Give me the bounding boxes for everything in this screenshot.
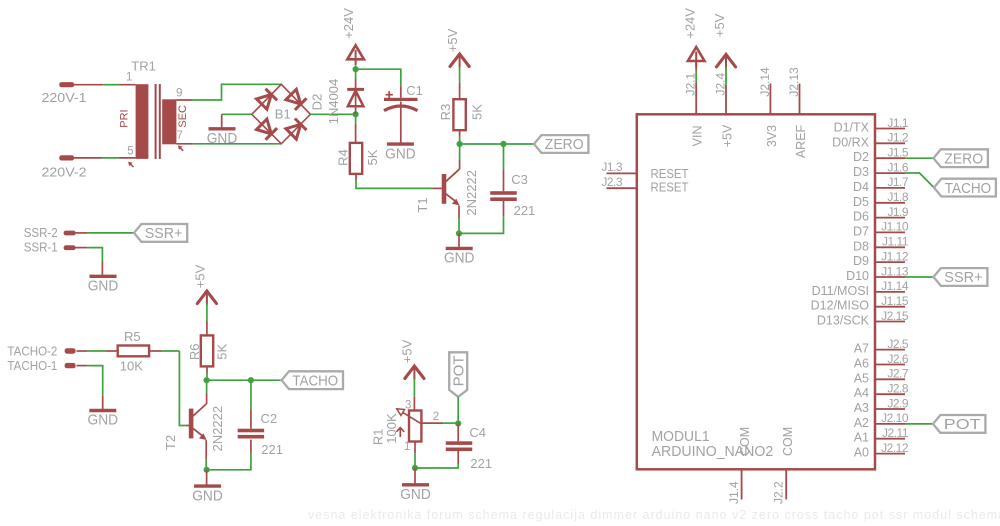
wire TACHO-2 to R5 <box>77 350 88 352</box>
svg-text:2N2222: 2N2222 <box>210 406 225 452</box>
svg-text:D9: D9 <box>853 254 869 268</box>
connector pad SSR-1 <box>64 245 76 250</box>
svg-text:220V-2: 220V-2 <box>42 165 87 180</box>
svg-text:J2.14: J2.14 <box>758 67 772 97</box>
svg-text:+5V: +5V <box>193 264 208 288</box>
svg-text:J2.10: J2.10 <box>881 411 909 425</box>
svg-text:D1/TX: D1/TX <box>834 121 870 135</box>
svg-text:R4: R4 <box>336 149 351 166</box>
pin J1.13 D10 stub <box>875 276 905 278</box>
svg-text:J1.13: J1.13 <box>881 264 909 278</box>
module MODUL1 ARDUINO_NANO2 body <box>637 114 875 469</box>
wire T1 ground stem <box>458 233 460 247</box>
svg-text:D10: D10 <box>846 269 869 283</box>
svg-text:A0: A0 <box>854 446 869 460</box>
svg-text:A6: A6 <box>854 357 869 371</box>
wire POT node to C4 <box>457 424 459 442</box>
ground under T2 <box>194 484 221 487</box>
flag TACHO left <box>282 371 343 389</box>
wire net POT to module A2 <box>905 423 933 425</box>
svg-text:A7: A7 <box>854 342 869 356</box>
svg-text:GND: GND <box>385 146 416 162</box>
supply +5V at R1 <box>405 366 424 379</box>
svg-text:1: 1 <box>404 441 410 453</box>
svg-text:GND: GND <box>192 488 223 504</box>
pin J2.11 A1 stub <box>875 438 905 440</box>
svg-text:POT: POT <box>944 416 981 433</box>
svg-text:MODUL1: MODUL1 <box>652 429 710 445</box>
svg-text:J2.4: J2.4 <box>714 73 728 96</box>
svg-text:A2: A2 <box>854 416 869 430</box>
wire R1 pin1 to ground node <box>414 441 416 453</box>
svg-text:C1: C1 <box>406 83 423 98</box>
C1 plus sign <box>386 94 393 96</box>
svg-text:+24V: +24V <box>341 8 356 39</box>
svg-text:5K: 5K <box>469 104 484 120</box>
svg-text:VIN: VIN <box>691 125 705 146</box>
svg-text:1N4004: 1N4004 <box>326 79 341 125</box>
svg-text:A5: A5 <box>854 371 869 385</box>
R1 adjust arrow <box>399 428 401 437</box>
svg-text:9: 9 <box>176 87 182 99</box>
supply +5V at R3 <box>450 54 469 67</box>
connector pad 220V-2 <box>59 155 74 160</box>
svg-text:J2.2: J2.2 <box>772 481 786 504</box>
svg-text:221: 221 <box>470 456 492 471</box>
svg-text:J1.1: J1.1 <box>887 116 909 130</box>
svg-text:J2.9: J2.9 <box>887 396 909 410</box>
junction ZERO at C3 <box>500 141 506 147</box>
svg-text:ZERO: ZERO <box>545 136 584 153</box>
svg-text:D0/RX: D0/RX <box>832 135 869 149</box>
svg-text:SSR-2: SSR-2 <box>24 225 58 240</box>
svg-text:D8: D8 <box>853 239 869 253</box>
svg-text:J1.10: J1.10 <box>881 220 909 234</box>
supply +24V at VIN <box>688 47 705 61</box>
pin J1.1 D1/TX stub <box>875 128 905 130</box>
supply +5V at R6 <box>197 291 216 304</box>
svg-text:AREF: AREF <box>794 124 808 158</box>
svg-text:C3: C3 <box>511 172 528 187</box>
svg-text:T2: T2 <box>163 435 178 450</box>
pin J2.8 A4 stub <box>875 393 905 395</box>
svg-text:POT: POT <box>451 356 468 387</box>
svg-text:C4: C4 <box>469 425 486 440</box>
svg-text:5: 5 <box>127 145 133 157</box>
svg-text:COM: COM <box>781 427 795 456</box>
pin J2.14 stub <box>769 84 771 115</box>
junction T1 emitter node <box>456 230 462 236</box>
svg-text:J1.9: J1.9 <box>887 205 909 219</box>
svg-text:J1.12: J1.12 <box>881 249 909 263</box>
svg-text:2: 2 <box>433 411 439 423</box>
pin J2.1 VIN stub <box>695 83 697 115</box>
wire C1 to ground <box>400 102 402 143</box>
wire node to T1 collector <box>459 144 461 159</box>
svg-text:A4: A4 <box>854 386 869 400</box>
wire bridge minus to ground <box>222 113 252 115</box>
wire C4 to ground node <box>457 449 459 465</box>
svg-text:RESET: RESET <box>651 167 689 181</box>
svg-text:GND: GND <box>88 413 119 429</box>
svg-text:D3: D3 <box>853 165 869 179</box>
supply +5V at module <box>716 54 735 67</box>
svg-text:J2.15: J2.15 <box>881 309 909 323</box>
svg-text:5K: 5K <box>365 149 380 165</box>
wire bridge plus to node D2-R4 <box>310 113 355 115</box>
wire 220V-1 to TR1 pin 1 <box>74 84 103 86</box>
B1 diode bottom-right <box>286 124 301 139</box>
ground under TACHO-1 <box>89 409 116 412</box>
svg-text:+5V: +5V <box>400 339 415 363</box>
pin J1.15 D12/MISO stub <box>875 306 905 308</box>
pin J2.6 A6 stub <box>875 364 905 366</box>
wire T2 ground stem <box>206 470 208 485</box>
R1 wiper arrow <box>402 412 423 425</box>
svg-text:J1.7: J1.7 <box>887 175 909 189</box>
wire ZERO node down to C3 top <box>503 144 505 169</box>
pin J1.6 D3 stub <box>875 172 905 174</box>
svg-text:TACHO-1: TACHO-1 <box>7 358 57 373</box>
TR1 primary winding <box>136 84 149 159</box>
wire 220V-2 to TR1 pin 5 <box>74 157 102 159</box>
pin J1.8 D5 stub <box>875 202 905 204</box>
pin J1.12 D9 stub <box>875 261 905 263</box>
svg-text:D4: D4 <box>853 180 869 194</box>
svg-text:ZERO: ZERO <box>944 150 983 167</box>
TR1 secondary winding <box>162 99 176 144</box>
junction ground node R1-C4 <box>412 465 418 471</box>
potentiometer R1 <box>409 411 421 442</box>
junction POT node <box>455 420 461 426</box>
svg-text:COM: COM <box>738 427 752 456</box>
wire R6 to TACHO node <box>206 366 208 373</box>
svg-text:SSR+: SSR+ <box>944 269 983 286</box>
svg-text:J1.3: J1.3 <box>601 160 623 174</box>
net TACHO horizontal wire <box>207 379 282 381</box>
pin J1.10 D7 stub <box>875 231 905 233</box>
svg-text:A3: A3 <box>854 401 869 415</box>
svg-text:PRI: PRI <box>118 109 130 127</box>
svg-text:D11/MOSI: D11/MOSI <box>812 284 869 298</box>
pin J2.7 A5 stub <box>875 378 905 380</box>
net ZERO horizontal wire <box>460 143 534 145</box>
connector pad 220V-1 <box>59 82 74 87</box>
pin J2.4 +5V stub <box>725 85 727 115</box>
svg-text:J1.11: J1.11 <box>882 235 909 249</box>
svg-text:TACHO: TACHO <box>292 372 338 389</box>
svg-text:R3: R3 <box>438 104 453 121</box>
wire R4 to T1 base <box>355 174 357 181</box>
svg-text:D13/SCK: D13/SCK <box>817 314 870 328</box>
svg-text:J1.14: J1.14 <box>881 279 909 293</box>
svg-text:J2.5: J2.5 <box>887 337 909 351</box>
pin J2.5 A7 stub <box>875 349 905 351</box>
svg-text:J1.15: J1.15 <box>881 294 909 308</box>
wire node to R4 <box>355 114 357 124</box>
svg-text:221: 221 <box>261 442 283 457</box>
svg-text:100K: 100K <box>384 413 399 444</box>
svg-text:SSR-1: SSR-1 <box>24 240 58 255</box>
svg-text:5K: 5K <box>215 344 230 360</box>
connector pad TACHO-2 <box>65 348 76 353</box>
svg-text:221: 221 <box>514 203 536 218</box>
resistor R6 <box>201 335 213 366</box>
svg-text:vesna elektronika forum schema: vesna elektronika forum schema regulacij… <box>308 508 1000 522</box>
svg-text:J2.8: J2.8 <box>887 382 909 396</box>
pin J2.13 stub <box>799 84 801 115</box>
junction node D2 anode <box>353 111 359 117</box>
wire TACHO node to T2 collector <box>206 380 208 393</box>
svg-text:GND: GND <box>88 279 119 295</box>
svg-text:J2.11: J2.11 <box>882 426 909 440</box>
TR1 polarity mark primary <box>130 164 133 167</box>
connector pad TACHO-1 <box>65 363 76 368</box>
wire POT flag to node <box>457 397 459 424</box>
wire R5 to T2 base <box>149 350 162 352</box>
junction node +24V <box>353 66 359 72</box>
flag SSR+ left <box>134 224 187 242</box>
B1 diode top-left <box>257 95 272 110</box>
junction TACHO at R6 <box>204 377 210 383</box>
pin J1.14 D11/MOSI stub <box>875 291 905 293</box>
ground under R1 <box>402 483 429 486</box>
pin J1.11 D8 stub <box>875 246 905 248</box>
svg-text:J1.8: J1.8 <box>887 190 909 204</box>
pin J2.2 COM stub <box>785 469 787 499</box>
junction TACHO at C2 <box>248 377 254 383</box>
svg-text:D2: D2 <box>310 94 325 111</box>
wire SSR-1 to ground <box>75 247 88 249</box>
pin J1.5 D2 stub <box>875 157 905 159</box>
capacitor C2 <box>238 429 265 433</box>
svg-text:T1: T1 <box>415 197 430 212</box>
pin J1.3 stub <box>607 172 637 174</box>
pin J1.4 COM stub <box>741 469 743 499</box>
connector pad SSR-2 <box>64 231 76 236</box>
flag POT right <box>933 415 985 433</box>
pin J1.9 D6 stub <box>875 217 905 219</box>
wire emitter node to C2 bottom <box>207 454 251 470</box>
svg-text:TACHO-2: TACHO-2 <box>7 343 57 358</box>
svg-text:J1.2: J1.2 <box>887 131 909 145</box>
svg-text:1: 1 <box>126 72 132 84</box>
svg-text:GND: GND <box>444 251 475 267</box>
pin J2.9 A3 stub <box>875 408 905 410</box>
svg-text:R6: R6 <box>187 343 202 360</box>
pin J1.2 D0/RX stub <box>875 142 905 144</box>
svg-text:+5V: +5V <box>445 28 460 52</box>
pin J2.3 stub <box>607 187 637 189</box>
ground under C1 <box>387 142 414 145</box>
wire net SSR+ to module D10 <box>905 276 934 278</box>
resistor R3 <box>453 99 465 130</box>
svg-text:+5V: +5V <box>721 124 735 147</box>
wire SSR-2 to flag <box>75 232 88 234</box>
wire R1 wiper to POT node <box>421 422 443 424</box>
svg-text:J2.1: J2.1 <box>684 73 698 96</box>
svg-text:TACHO: TACHO <box>945 180 991 197</box>
svg-text:R5: R5 <box>124 329 141 344</box>
wire ground stem R1 <box>414 468 416 483</box>
wire D2 anode to node <box>355 106 357 114</box>
wire net ZERO to module D2 <box>905 157 934 159</box>
svg-text:A1: A1 <box>854 431 869 445</box>
ground under SSR-1 <box>90 275 117 278</box>
svg-text:SEC: SEC <box>177 105 189 128</box>
capacitor C1 polarized <box>384 98 418 101</box>
svg-text:C2: C2 <box>261 411 278 426</box>
flag POT vertical <box>449 352 467 397</box>
svg-text:2N2222: 2N2222 <box>464 170 479 216</box>
svg-text:+24V: +24V <box>682 8 697 39</box>
wire +24V node to C1 <box>356 69 401 86</box>
svg-text:3: 3 <box>405 399 411 411</box>
svg-text:J1.4: J1.4 <box>727 481 741 504</box>
svg-text:D12/MISO: D12/MISO <box>811 299 870 313</box>
supply +24V left <box>355 66 357 70</box>
svg-text:10K: 10K <box>120 359 143 374</box>
B1 diode bottom-left <box>257 119 272 134</box>
TR1 core <box>155 84 157 159</box>
flag ZERO right <box>934 149 988 167</box>
svg-text:3V3: 3V3 <box>765 125 779 147</box>
wire R3 to ZERO node <box>459 130 461 136</box>
TR1 polarity mark secondary <box>180 148 183 151</box>
svg-text:RESET: RESET <box>651 181 689 195</box>
svg-text:GND: GND <box>207 131 238 147</box>
capacitor C4 <box>446 441 473 445</box>
capacitor C3 <box>490 191 517 195</box>
pin J2.15 D13/SCK stub <box>875 321 905 323</box>
pin J2.12 A0 stub <box>875 453 905 455</box>
svg-text:ARDUINO_NANO2: ARDUINO_NANO2 <box>652 444 774 460</box>
wire D2 cathode to +24V node <box>355 79 357 89</box>
diode D2 <box>347 88 364 91</box>
svg-text:D7: D7 <box>853 224 869 238</box>
junction ZERO at R3 <box>457 141 463 147</box>
ground under T1 <box>446 247 473 250</box>
resistor R5 <box>118 346 149 357</box>
wire net TACHO to module D3 <box>905 173 934 188</box>
wire T1 emitter to ground node <box>458 206 460 219</box>
wire TACHO node down to C2 top <box>250 380 252 409</box>
svg-text:7: 7 <box>177 130 183 142</box>
svg-text:J2.7: J2.7 <box>887 367 909 381</box>
wire emitter node to C3 bottom <box>459 216 504 233</box>
svg-text:220V-1: 220V-1 <box>42 90 87 105</box>
svg-text:+5V: +5V <box>712 13 727 37</box>
svg-text:B1: B1 <box>275 107 291 122</box>
svg-text:J2.12: J2.12 <box>881 441 909 455</box>
ground under bridge <box>209 127 236 130</box>
wire TR1 pin 7 to bridge AC bottom <box>176 143 193 145</box>
transistor T1 2N2222 <box>442 174 447 204</box>
wire TACHO-1 to ground <box>77 365 88 367</box>
junction T2 emitter node <box>204 467 210 473</box>
B1 diode top-right <box>286 89 301 104</box>
svg-text:GND: GND <box>400 487 431 503</box>
svg-text:D5: D5 <box>853 195 869 209</box>
svg-text:J2.3: J2.3 <box>601 175 623 189</box>
pin J1.7 D4 stub <box>875 187 905 189</box>
svg-text:J2.6: J2.6 <box>887 352 909 366</box>
wire TR1 pin 9 to bridge AC top <box>176 99 192 101</box>
flag TACHO right <box>934 179 996 197</box>
svg-text:D2: D2 <box>853 150 869 164</box>
svg-text:TR1: TR1 <box>131 58 156 73</box>
flag ZERO left <box>534 135 588 153</box>
pin J2.10 A2 stub <box>875 423 905 425</box>
svg-text:SSR+: SSR+ <box>145 225 183 242</box>
svg-text:D6: D6 <box>853 210 869 224</box>
transistor T2 2N2222 <box>189 409 194 439</box>
bridge rectifier B1 <box>252 84 311 144</box>
flag SSR+ right <box>934 268 988 286</box>
resistor R4 <box>350 143 362 174</box>
wire T2 emitter to ground node <box>205 440 207 459</box>
svg-text:J2.13: J2.13 <box>787 67 801 97</box>
